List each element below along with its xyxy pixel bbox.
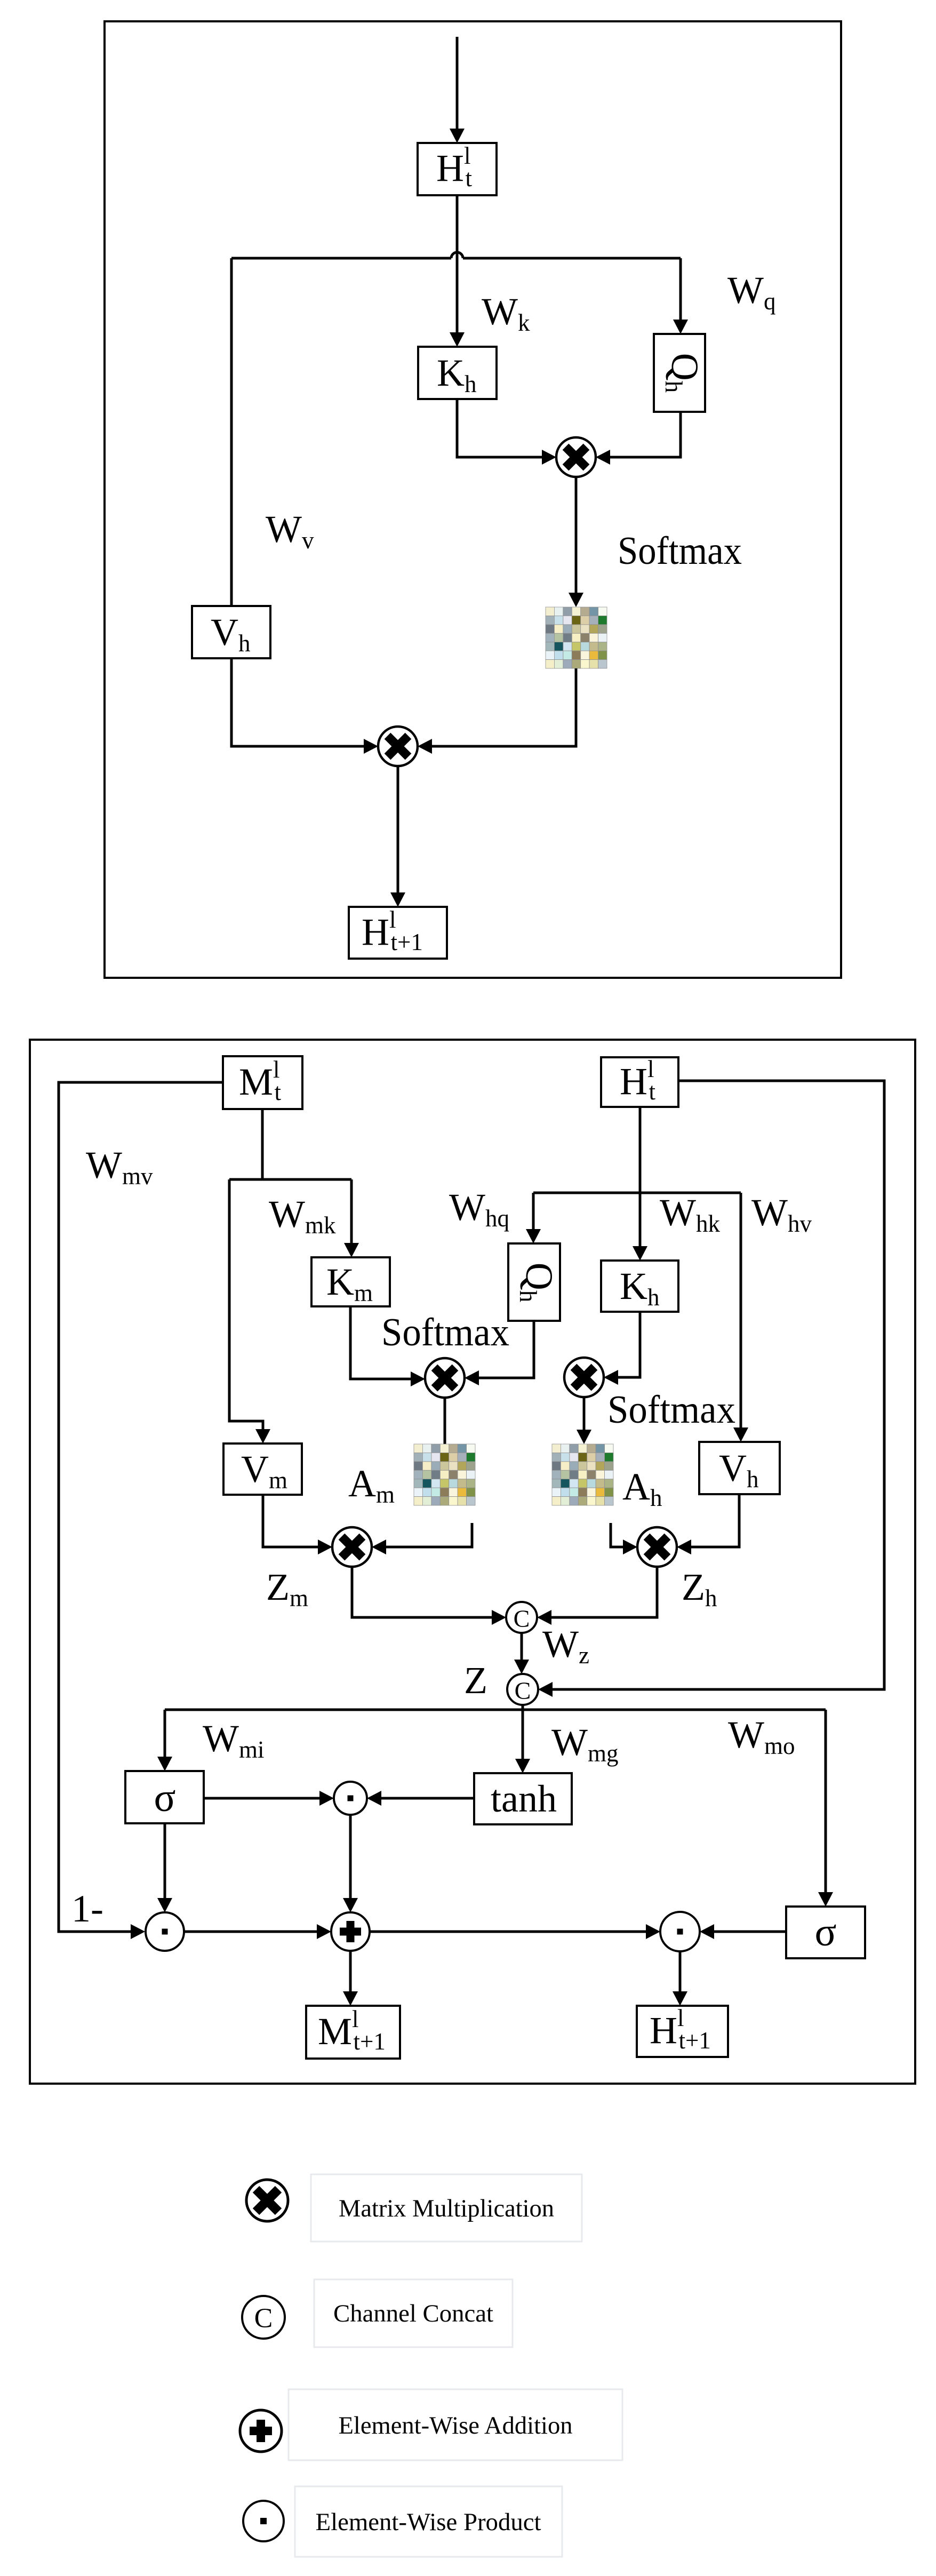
legend box Matrix Multiplication (311, 2174, 582, 2242)
box H_t+1^l (memory module output) (637, 2006, 728, 2057)
wire: W_mk branch down to K_m (350, 1179, 353, 1243)
box Q_h (rotated) (654, 334, 705, 412)
wire: tanh to product gate (381, 1797, 474, 1800)
concat node C1 (506, 1602, 537, 1633)
wire: H_t^l down to K_h (crosses branch with hop) (456, 195, 459, 333)
box V_h (192, 606, 270, 658)
svg-text:Hlt: Hlt (436, 142, 473, 192)
box M_t+1^l (306, 2006, 400, 2059)
wire: matmul down to matrix A_h (583, 1397, 586, 1430)
wire: H branch horizontal (W_hq / W_hv) (533, 1192, 741, 1194)
box M_t^l (223, 1056, 302, 1109)
wire: product gate down to addition (349, 1815, 352, 1899)
svg-text:Element-Wise Addition: Element-Wise Addition (339, 2412, 573, 2439)
concat node C2 (Z) (507, 1674, 538, 1705)
wire: sigma right to output product (714, 1931, 786, 1933)
matmul node Z_m (V_m x A_m) (332, 1527, 372, 1567)
wire: K_h output to matmul (457, 399, 542, 457)
svg-text:Mlt: Mlt (239, 1056, 282, 1105)
svg-text:σ: σ (154, 1775, 176, 1820)
svg-text:C: C (515, 1677, 531, 1704)
wire: M_t^l bottom branch (261, 1109, 264, 1179)
legend matmul symbol (246, 2180, 288, 2221)
wire: V_h output to matmul 2 (231, 658, 364, 746)
matmul node A_m (K_m x Q_h) (425, 1358, 465, 1398)
attention matrix (softmax output) (546, 607, 607, 668)
outer frame of memory module (bottom diagram) (30, 1040, 915, 2084)
svg-text:tanh: tanh (491, 1777, 557, 1820)
box Q_h rotated (memory module) (508, 1243, 560, 1321)
matmul node Z_h (A_h x V_h) (637, 1527, 677, 1567)
wire: branch down to V_m with jog (229, 1179, 263, 1430)
product node (o * M) (660, 1912, 700, 1951)
attention matrix A_m (414, 1444, 475, 1505)
box K_h (418, 347, 497, 399)
wire: K_m output to matmul A_m (350, 1306, 411, 1379)
box sigma (output gate) (786, 1907, 865, 1958)
product node (i * g) (334, 1782, 367, 1815)
wire: Z distribution bus (165, 1709, 826, 1711)
svg-text:Hlt: Hlt (620, 1056, 656, 1105)
wire: Q_h output to matmul (610, 412, 681, 457)
wire: H_t^l right branch down to concat Z (553, 1081, 884, 1689)
wire: sigma to product gate (204, 1797, 319, 1800)
product node (1-i) * M (146, 1912, 184, 1951)
box V_h (memory module) (699, 1442, 780, 1494)
wire: output product down to H_t+1 (679, 1951, 682, 1992)
box K_m (311, 1257, 390, 1306)
matmul node A_h (Q_h x K_h) (564, 1358, 604, 1397)
svg-text:Softmax: Softmax (618, 529, 742, 573)
wire: matrix A_m elbow to matmul Z_m (386, 1523, 472, 1547)
addition node (new memory) (331, 1912, 370, 1951)
wire: concat C1 down to concat C2 (521, 1633, 523, 1660)
attention matrix A_h (552, 1444, 613, 1505)
box V_m (223, 1443, 302, 1495)
wire: left branch W_v down to V_h (230, 258, 233, 606)
wire: input into H_t^l (456, 37, 459, 130)
wire: Q_h output to matmul A_m (479, 1321, 534, 1378)
svg-text:Softmax: Softmax (381, 1311, 509, 1354)
wire: addition down to M_t+1 (349, 1951, 352, 1992)
svg-text:Channel Concat: Channel Concat (333, 2300, 493, 2327)
legend addition symbol (240, 2410, 282, 2452)
box H_t^l (memory module) (601, 1057, 678, 1107)
matmul node (K_h x Q_h) (556, 437, 596, 477)
wire: W_hv down to V_h (740, 1193, 742, 1428)
box sigma (input gate) (125, 1771, 204, 1823)
box H_t^l (418, 143, 497, 195)
svg-text:Element-Wise Product: Element-Wise Product (316, 2508, 541, 2536)
svg-text:Z: Z (464, 1659, 487, 1702)
box tanh (474, 1773, 572, 1824)
wire: addition to output product (370, 1931, 646, 1933)
wire: M_t^l left branch W_mv down to gate (59, 1082, 223, 1932)
box K_h (memory module) (601, 1261, 678, 1312)
wire: W_mi down to sigma (164, 1710, 166, 1757)
svg-text:C: C (514, 1605, 530, 1632)
wire: H_t^l bottom down to K_h (639, 1107, 642, 1247)
wire: matmul 2 down to H_t+1^l (397, 766, 399, 893)
svg-text:1-: 1- (71, 1887, 103, 1930)
wire: horizontal branch from H_t^l with hop over vertical (231, 257, 451, 260)
legend box Element-Wise Addition (289, 2389, 622, 2460)
wire: K_h output to matmul A_h (618, 1312, 640, 1377)
wire: matmul down to attention matrix (575, 477, 578, 593)
legend product symbol (243, 2501, 284, 2541)
legend box Channel Concat (314, 2279, 513, 2347)
wire: Z down to tanh (522, 1705, 524, 1759)
legend concat symbol (242, 2296, 285, 2339)
wire: right branch W_q down to Q_h (679, 258, 682, 320)
svg-text:C: C (254, 2303, 273, 2334)
wire: W_mo down to sigma right (825, 1710, 827, 1893)
svg-text:Softmax: Softmax (607, 1388, 735, 1432)
matmul node 2 (V_h x A) (378, 727, 418, 766)
wire: attention matrix to matmul 2 (432, 668, 576, 746)
outer frame of attention module (top diagram) (105, 21, 841, 978)
wire: forget product to addition (184, 1931, 317, 1933)
wire: matmul down to matrix A_m (444, 1398, 446, 1444)
box H_t+1^l (349, 907, 447, 959)
svg-text:σ: σ (815, 1910, 837, 1955)
svg-text:Matrix Multiplication: Matrix Multiplication (339, 2195, 554, 2222)
wire: Z_m to channel concat (352, 1567, 492, 1617)
wire: Z_h to channel concat (551, 1567, 657, 1617)
wire: V_h output to matmul Z_h (691, 1494, 739, 1547)
wire: down into Q_h (532, 1193, 535, 1230)
legend box Element-Wise Product (295, 2486, 562, 2557)
wire: V_m output to matmul Z_m (263, 1495, 318, 1547)
wire: sigma down to forget product (164, 1823, 166, 1899)
wire: matrix A_h elbow to matmul Z_h (611, 1523, 623, 1547)
